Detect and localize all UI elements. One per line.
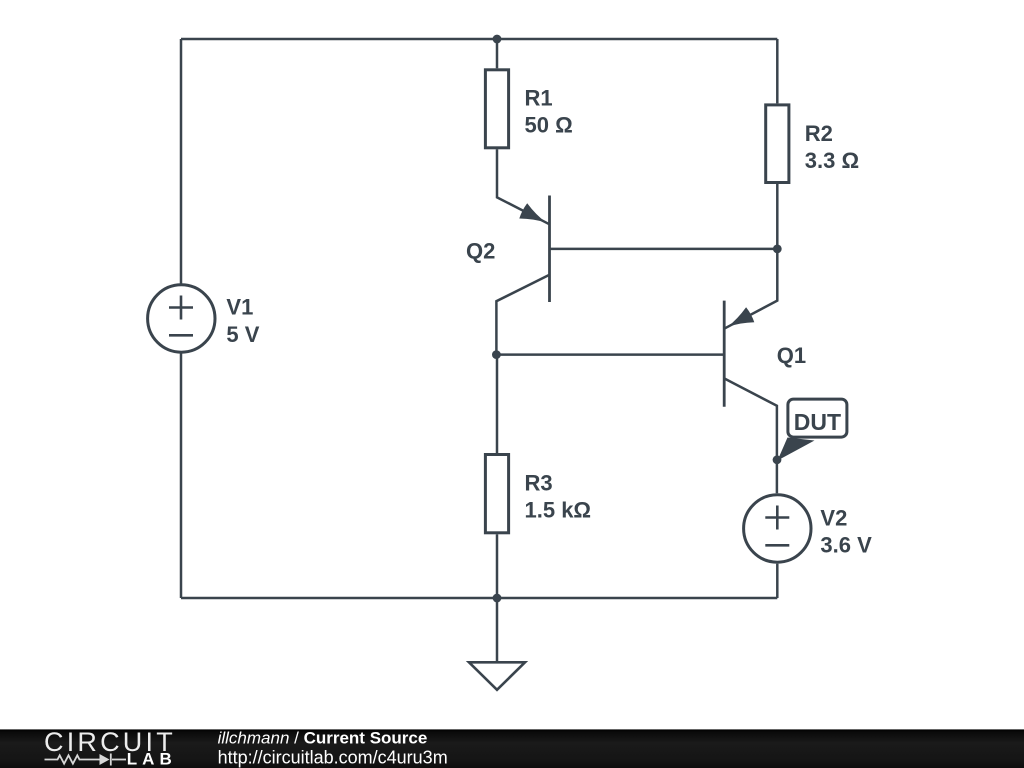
svg-text:3.3 Ω: 3.3 Ω — [805, 148, 859, 173]
svg-text:http://circuitlab.com/c4uru3m: http://circuitlab.com/c4uru3m — [218, 747, 448, 767]
svg-text:5 V: 5 V — [226, 322, 259, 347]
svg-text:DUT: DUT — [794, 409, 841, 435]
svg-text:R2: R2 — [805, 121, 833, 146]
svg-text:3.6 V: 3.6 V — [820, 533, 872, 558]
svg-text:Q2: Q2 — [466, 239, 495, 264]
svg-text:illchmann / Current Source: illchmann / Current Source — [218, 729, 428, 748]
svg-text:LAB: LAB — [127, 750, 177, 768]
svg-text:V1: V1 — [226, 295, 253, 320]
svg-text:50 Ω: 50 Ω — [525, 113, 573, 138]
svg-text:V2: V2 — [820, 506, 847, 531]
svg-text:R3: R3 — [525, 470, 553, 495]
svg-text:R1: R1 — [525, 86, 553, 111]
svg-text:Q1: Q1 — [777, 343, 806, 368]
svg-text:1.5 kΩ: 1.5 kΩ — [525, 498, 592, 523]
